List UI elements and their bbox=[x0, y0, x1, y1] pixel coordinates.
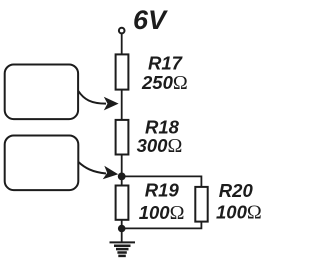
callout box 2 bbox=[5, 136, 79, 191]
node A junction dot bbox=[118, 173, 126, 181]
resistor R19 bbox=[116, 186, 129, 220]
resistor R20 bbox=[195, 187, 207, 222]
svg-text:R20: R20 bbox=[219, 180, 254, 201]
power terminal (6V supply) bbox=[119, 28, 125, 34]
wire node A to R20 top bbox=[122, 176, 202, 187]
resistor R17 bbox=[116, 54, 129, 89]
ground stem bbox=[121, 229, 123, 243]
callout box 1 bbox=[5, 65, 78, 120]
wire R18 to node A bbox=[121, 155, 123, 177]
svg-text:100Ω: 100Ω bbox=[139, 202, 185, 224]
arrow 1 line bbox=[78, 91, 106, 104]
arrow 2 head bbox=[103, 166, 119, 180]
wire R17 to R18 bbox=[121, 90, 123, 120]
svg-text:300Ω: 300Ω bbox=[137, 135, 183, 157]
resistor R18 bbox=[116, 120, 129, 155]
wire terminal to R17 bbox=[121, 34, 123, 55]
arrow 1 head bbox=[104, 97, 119, 111]
svg-text:100Ω: 100Ω bbox=[216, 202, 262, 224]
wire node B to R20 bottom bbox=[122, 222, 202, 229]
svg-text:R19: R19 bbox=[145, 180, 180, 201]
svg-text:R17: R17 bbox=[148, 53, 184, 74]
svg-text:250Ω: 250Ω bbox=[141, 72, 188, 94]
wire node A to R19 bbox=[121, 176, 123, 185]
wire R19 to node B bbox=[121, 220, 123, 229]
node B junction dot bbox=[118, 225, 126, 233]
ground symbol bbox=[110, 242, 136, 256]
arrow 2 line bbox=[78, 162, 106, 174]
svg-text:6V: 6V bbox=[133, 5, 168, 35]
